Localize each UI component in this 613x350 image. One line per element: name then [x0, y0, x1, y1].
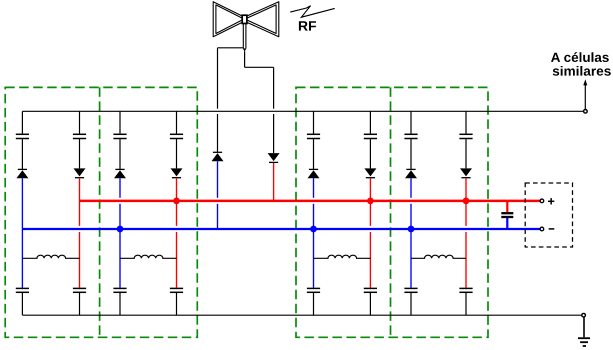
junction dot (blue bus x=120)	[117, 226, 124, 233]
antenna feed stem	[242, 24, 244, 49]
wire: cell4 left branch top	[410, 111, 412, 133]
junction dot (red bus x=466)	[463, 198, 470, 205]
inductor L4	[411, 255, 466, 258]
capacitor C1a	[16, 133, 29, 135]
antenna AN1 (bowtie)	[213, 2, 279, 37]
inductor L3	[314, 255, 371, 258]
wire: cell3 left branch top	[313, 111, 315, 133]
wire: cell2 left branch top	[119, 111, 121, 133]
junction dot (red bus x=176)	[173, 198, 180, 205]
wire: cell3 left cap to diode	[313, 139, 315, 169]
diode D3b (cathode down)	[364, 168, 376, 176]
arrow to similar cells	[584, 85, 586, 110]
blue V- bus wire	[22, 228, 540, 230]
wire: cell2 right bottom cap to bottom bus	[176, 293, 178, 315]
terminal circle -	[540, 227, 544, 231]
terminal circle +	[540, 199, 544, 203]
output dashed box	[525, 183, 572, 247]
diode D1b (cathode down)	[74, 168, 86, 176]
wire: antenna right feed	[244, 51, 246, 67]
junction dot (red bus x=370)	[367, 198, 374, 205]
output capacitor C0	[501, 212, 513, 214]
wire (red): cell1 right branch to bottom cap	[79, 178, 81, 226]
wire: antenna left feed	[218, 47, 244, 49]
diode D5 (cathode up, antenna left)	[213, 151, 222, 153]
ground	[583, 317, 585, 337]
junction dot (blue bus x=314)	[310, 226, 317, 233]
diode D2a (cathode up)	[115, 168, 124, 170]
capacitor C1d	[73, 287, 86, 289]
red V+ bus wire	[80, 200, 540, 203]
diode D3a (cathode up)	[309, 168, 318, 170]
inductor L2	[120, 255, 177, 258]
capacitor C2b	[170, 133, 183, 135]
wire: cell4 right branch top	[465, 111, 467, 133]
wire: cell3 right branch top	[369, 111, 371, 133]
inductor L1	[22, 255, 79, 258]
capacitor C3a	[307, 133, 320, 135]
capacitor C4b	[459, 133, 472, 135]
label -	[549, 228, 555, 230]
wire (blue): cell3 left branch to bottom cap	[313, 178, 315, 198]
capacitor C4a	[404, 133, 417, 135]
wire: cell1 left cap to diode	[21, 139, 23, 169]
diode D4b (cathode down)	[460, 168, 472, 176]
capacitor C2d	[170, 287, 183, 289]
capacitor C1c	[16, 287, 29, 289]
wire: cell4 left bottom cap to bottom bus	[410, 293, 412, 315]
wire (blue): output capacitor to blue bus	[506, 218, 508, 229]
junction dot (blue bus x=411)	[408, 226, 415, 233]
wire: cell1 left bottom cap to bottom bus	[21, 293, 23, 315]
wire (red): cell2 right branch to bottom cap	[176, 178, 178, 226]
label A células similares	[551, 52, 609, 62]
capacitor C2a	[113, 133, 126, 135]
wire (red): cell4 right branch to bottom cap	[465, 178, 467, 226]
diode D6 (cathode down, antenna right)	[268, 153, 280, 161]
wire: cell1 right branch top	[79, 111, 81, 133]
wire: cell2 left cap to diode	[119, 139, 121, 169]
diode D2b (cathode down)	[171, 168, 183, 176]
wire: cell3 right cap to diode	[369, 139, 371, 168]
wire (blue): cell1 left branch to bottom cap	[21, 178, 23, 287]
RF wave symbol	[290, 6, 335, 18]
wire: cell4 left cap to diode	[410, 139, 412, 169]
wire: cell2 right cap to diode	[176, 139, 178, 168]
diode D1a (cathode up)	[18, 168, 27, 170]
wire: cell1 right bottom cap to bottom bus	[79, 293, 81, 315]
wire: cell2 left bottom cap to bottom bus	[119, 293, 121, 315]
wire: cell2 right branch top	[176, 111, 178, 133]
capacitor C4c	[404, 287, 417, 289]
cell boundary box A (cells 1-2)	[5, 87, 197, 337]
label +	[548, 200, 554, 202]
diode D4a (cathode up)	[406, 168, 415, 170]
capacitor C4d	[459, 287, 472, 289]
wire (blue): cell2 left branch to bottom cap	[119, 178, 121, 198]
capacitor C3b	[364, 133, 377, 135]
cell boundary box B (cells 3-4)	[296, 87, 488, 337]
terminal circle (top bus)	[584, 110, 588, 114]
wire (blue): cell4 left branch to bottom cap	[410, 178, 412, 198]
wire: cell4 right cap to diode	[465, 139, 467, 168]
top bus wire	[22, 110, 583, 112]
label RF	[299, 21, 316, 30]
capacitor C3d	[364, 287, 377, 289]
wire: cell1 left branch top	[21, 111, 23, 133]
wire: cell4 right bottom cap to bottom bus	[465, 293, 467, 315]
wire (red): D6 to red bus	[273, 163, 275, 201]
wire (red): red bus to output capacitor	[506, 201, 508, 212]
capacitor C1b	[73, 133, 86, 135]
capacitor C2c	[113, 287, 126, 289]
wire (blue): D5 to blue bus	[217, 161, 219, 198]
wire (red): cell3 right branch to bottom cap	[369, 178, 371, 226]
capacitor C3c	[307, 287, 320, 289]
terminal circle (bottom bus)	[582, 313, 586, 317]
bottom bus wire	[22, 314, 581, 316]
wire: cell3 left bottom cap to bottom bus	[313, 293, 315, 315]
cell divider B	[390, 87, 392, 337]
wire: cell3 right bottom cap to bottom bus	[369, 293, 371, 315]
cell divider A	[99, 87, 101, 337]
wire: cell1 right cap to diode	[79, 139, 81, 168]
